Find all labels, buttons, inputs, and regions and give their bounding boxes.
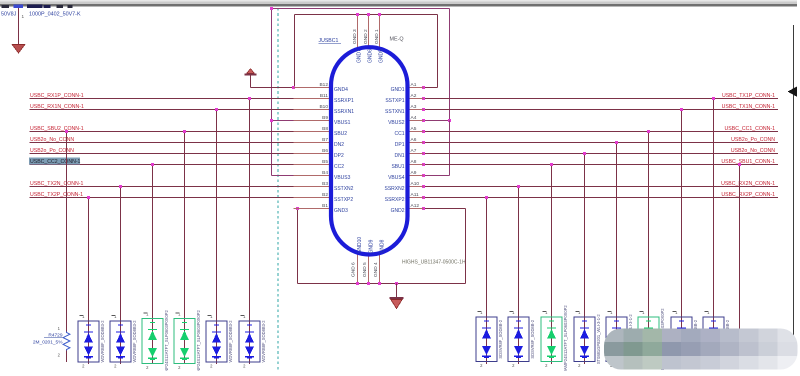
svg-text:B6: B6 (322, 148, 328, 154)
svg-text:DP1: DP1 (395, 142, 405, 148)
pin 2 D12 (642, 363, 645, 368)
package label D8 (530, 319, 535, 358)
svg-text:USBC_RX2N_CONN-1: USBC_RX2N_CONN-1 (721, 181, 775, 187)
pin 1 D1 (80, 314, 86, 319)
net label USB2o_No_CONN (731, 148, 775, 154)
pin designator A5 (411, 126, 417, 132)
svg-text:ST0881GP8201_WLI-3-1-2: ST0881GP8201_WLI-3-1-2 (596, 314, 601, 365)
svg-text:SSTXN1: SSTXN1 (385, 109, 405, 115)
svg-text:SSTXP2: SSTXP2 (334, 197, 353, 203)
svg-text:VBUS4: VBUS4 (388, 175, 405, 181)
svg-text:VBUS1: VBUS1 (334, 120, 351, 126)
pin designator A8 (411, 159, 417, 165)
svg-text:GND 1: GND 1 (374, 29, 380, 44)
svg-text:A12: A12 (411, 203, 420, 209)
svg-text:DN2: DN2 (334, 142, 344, 148)
ground symbol left of B12 (244, 69, 256, 88)
pin label GND 6 bottom (351, 262, 357, 277)
junction B1 (296, 207, 299, 210)
pin designator B2 (322, 192, 328, 198)
junction A4 (422, 119, 451, 122)
svg-text:GND 2: GND 2 (363, 29, 369, 44)
pin designator B12 (319, 82, 328, 88)
pin 1 R4729 (58, 326, 61, 331)
junction USBC_SBU2_CONN-1 (183, 130, 186, 133)
pin designator A1 (411, 82, 417, 88)
pin designator B8 (322, 126, 328, 132)
svg-text:USB2o_No_CONN: USB2o_No_CONN (30, 137, 74, 143)
wire drop USB2o_No_CONN to ESD (584, 154, 586, 365)
pin 1 D6 (241, 314, 247, 319)
net label USBC_TX1P_CONN-1 (722, 93, 775, 99)
wire net USBC_CC2_CONN-1 (30, 164, 332, 166)
net label USB2o_Po_CONN (731, 137, 775, 143)
pin 1 D13 (673, 310, 679, 315)
ESD diode package D11 (606, 317, 627, 362)
pin name DN1 (394, 153, 404, 159)
pin designator B10 (319, 104, 328, 110)
svg-text:USBC_TX1P_CONN-1: USBC_TX1P_CONN-1 (722, 93, 775, 99)
junctions bottom GND pins (356, 282, 398, 285)
net label USB2o_Po_CONN (30, 148, 74, 154)
svg-text:NP24S12ATFT_SLP0603P0X0P2: NP24S12ATFT_SLP0603P0X0P2 (164, 309, 169, 371)
pin name SSRXP1 (334, 98, 354, 104)
wire pin A4 VBUS2 (424, 120, 450, 122)
svg-text:HIGHS_UB11347-0500C-1H: HIGHS_UB11347-0500C-1H (402, 260, 466, 266)
ESD diode package D13 (671, 317, 692, 362)
pin 1 D5 (208, 314, 214, 319)
net label USBC_CC2_CONN-1 (29, 157, 81, 165)
package label D2 (132, 320, 137, 363)
pin designator B11 (320, 93, 329, 99)
wire net USBC_SBU1_CONN-1 (424, 164, 779, 166)
pin 1 D8 (510, 310, 516, 315)
svg-text:USB2o_Po_CONN: USB2o_Po_CONN (731, 137, 775, 143)
connector body JUSBC1 (oval) (331, 47, 408, 254)
pin 1 D4 (176, 312, 182, 317)
pin name CC1 (394, 131, 404, 137)
sheet border right edge (793, 25, 795, 338)
svg-text:USBC_RX1P_CONN-1: USBC_RX1P_CONN-1 (30, 93, 84, 99)
pin GND3 top (357, 15, 359, 49)
pin 2 D6 (243, 364, 246, 369)
pin 1 D2 (112, 314, 118, 319)
svg-text:B5: B5 (322, 159, 328, 165)
pin name GND7 (357, 49, 363, 63)
ESD diode package D14 (703, 317, 724, 362)
pin 1 label (22, 14, 25, 19)
package label D13 (693, 319, 698, 358)
pin name VBUS1 (334, 120, 351, 126)
svg-text:GND 4: GND 4 (373, 262, 379, 277)
wire drop USBC_TX1N_CONN-1 to ESD (681, 110, 683, 365)
wire net USB2o_No_CONN (30, 142, 332, 144)
pin name VBUS4 (388, 175, 405, 181)
pin label GND 5 bottom (362, 262, 368, 277)
svg-text:A4: A4 (411, 115, 417, 121)
svg-text:USBC_RX1N_CONN-1: USBC_RX1N_CONN-1 (30, 104, 84, 110)
svg-text:SDSVR8F_SOD8B-2: SDSVR8F_SOD8B-2 (498, 319, 503, 358)
junction A12 (422, 207, 425, 210)
pin 2 D7 (480, 363, 483, 368)
wire drop USBC_RX2P_CONN-1 to ESD (486, 198, 488, 365)
svg-text:DN1: DN1 (394, 153, 404, 159)
pin designator A9 (411, 170, 417, 176)
ESD diode package D10 (574, 317, 595, 362)
pin designator B4 (322, 170, 328, 176)
pin GND bottom 1 (357, 254, 359, 284)
svg-text:GND2: GND2 (391, 208, 405, 214)
junction USBC_SBU1_CONN-1 (550, 163, 553, 166)
svg-text:USBC_CC2_CONN-1: USBC_CC2_CONN-1 (30, 159, 81, 165)
pin designator B6 (322, 148, 328, 154)
net label USBC_SBU2_CONN-1 (30, 126, 84, 132)
wire pin A1 GND1 (424, 87, 438, 89)
pin 1 D10 (576, 310, 582, 315)
svg-text:GND5: GND5 (379, 49, 385, 63)
svg-text:CC2: CC2 (334, 164, 344, 170)
svg-text:GND8: GND8 (380, 239, 386, 253)
svg-text:WDVRB8F_SOD8B3-2: WDVRB8F_SOD8B3-2 (132, 320, 137, 363)
svg-text:B3: B3 (322, 181, 328, 187)
wire net USBC_RX2P_CONN-1 (424, 197, 779, 199)
net label USBC_TX2N_CONN-1 (30, 181, 83, 187)
svg-text:GND 5: GND 5 (362, 262, 368, 277)
pin label GND 1 top (374, 29, 380, 44)
svg-text:A1: A1 (411, 82, 417, 88)
pin name DP2 (334, 153, 344, 159)
value label 50V8J (1, 12, 17, 18)
junction pin A (422, 141, 425, 144)
svg-text:A3: A3 (411, 104, 417, 110)
svg-text:A2: A2 (411, 93, 417, 99)
svg-text:A10: A10 (411, 181, 420, 187)
net label USBC_RX2P_CONN-1 (721, 192, 775, 198)
junction pin A (422, 163, 425, 166)
svg-text:USBC_TX1N_CONN-1: USBC_TX1N_CONN-1 (722, 104, 775, 110)
svg-text:WDVRB8F_SOD8B3-2: WDVRB8F_SOD8B3-2 (100, 320, 105, 363)
pin 2 D2 (114, 364, 117, 369)
svg-text:GND 3: GND 3 (352, 29, 358, 44)
svg-text:B1: B1 (322, 203, 328, 209)
refdes R4729 (44, 333, 63, 339)
junction USB2o_Po_CONN (615, 141, 618, 144)
wire drop USBC_TX1P_CONN-1 to ESD (713, 99, 715, 365)
pin GND bottom 2 (368, 256, 370, 284)
pin designator A11 (411, 192, 420, 198)
ESD diode package D12 (638, 317, 659, 362)
pin label GND 4 bottom (373, 262, 379, 277)
pin GND bottom 3 (379, 254, 381, 284)
wire net USB2o_Po_CONN (424, 142, 779, 144)
wire net USBC_CC1_CONN-1 (424, 131, 779, 133)
svg-text:SBU1: SBU1 (391, 164, 404, 170)
net label USB2o_No_CONN (30, 137, 74, 143)
junction USBC_TX2N_CONN-1 (119, 185, 122, 188)
pin 2 D1 (82, 364, 85, 369)
junction USBC_TX1N_CONN-1 (680, 108, 683, 111)
svg-text:B8: B8 (322, 126, 328, 132)
pin name SSTXN1 (385, 109, 405, 115)
svg-text:SSRXP1: SSRXP1 (334, 98, 354, 104)
ESD diode package D7 (476, 317, 497, 362)
wire net USBC_TX1P_CONN-1 (424, 98, 779, 100)
svg-text:USBC_SBU2_CONN-1: USBC_SBU2_CONN-1 (30, 126, 84, 132)
pin 2 D8 (512, 363, 515, 368)
junction USBC_TX1P_CONN-1 (712, 97, 715, 100)
pin 2 D4 (178, 365, 181, 370)
junction USB2o_No_CONN (583, 152, 586, 155)
wire VBUS top rail (272, 9, 450, 176)
pin name SSTXP1 (385, 98, 404, 104)
blurred watermark mosaic (604, 329, 798, 370)
svg-text:USBC_SBU1_CONN-1: USBC_SBU1_CONN-1 (721, 159, 775, 165)
svg-text:USBC_CC1_CONN-1: USBC_CC1_CONN-1 (725, 126, 776, 132)
svg-text:1: 1 (22, 14, 25, 19)
pin name SSRXN1 (334, 109, 354, 115)
svg-text:DP2: DP2 (334, 153, 344, 159)
net label USBC_SBU1_CONN-1 (721, 159, 775, 165)
net label USBC_RX1N_CONN-1 (30, 104, 84, 110)
svg-text:A9: A9 (411, 170, 417, 176)
svg-text:ME-Q: ME-Q (390, 37, 404, 43)
package label D3 (164, 309, 169, 371)
svg-text:USB2o_Po_CONN: USB2o_Po_CONN (30, 148, 74, 154)
package label D4 (196, 309, 201, 371)
pin 1 D9 (543, 310, 549, 315)
ESD diode package D3 (142, 319, 163, 364)
pin name SSTXP2 (334, 197, 353, 203)
wire net USBC_RX1N_CONN-1 (30, 109, 332, 111)
pin label GND 3 top (352, 29, 358, 44)
pin designator B9 (322, 115, 328, 121)
pin name SSRXP2 (385, 197, 405, 203)
package label D7 (498, 319, 503, 358)
pin name DP1 (395, 142, 405, 148)
pin 2 D11 (610, 363, 613, 368)
svg-text:A5: A5 (411, 126, 417, 132)
pin designator A3 (411, 104, 417, 110)
pin 1 D3 (144, 312, 150, 317)
pin 2 D9 (545, 363, 548, 368)
svg-text:A6: A6 (411, 137, 417, 143)
junction USBC_RX1N_CONN-1 (215, 108, 218, 111)
mouse cursor arrow (788, 87, 798, 97)
wire pin B4 VBUS3 (272, 175, 295, 177)
svg-text:50V8J: 50V8J (1, 12, 17, 18)
pin 2 D14 (707, 363, 710, 368)
pin 1 D7 (478, 310, 484, 315)
pin name SSTXN2 (334, 186, 354, 192)
junction USBC_RX2N_CONN-1 (517, 185, 520, 188)
cut-off capacitor fragments C? top-left (2, 5, 73, 9)
junction B12 (292, 86, 295, 89)
pin name GND10 (357, 237, 363, 254)
svg-text:B10: B10 (319, 104, 328, 110)
svg-text:A8: A8 (411, 159, 417, 165)
package label D14 (725, 319, 730, 358)
ESD diode package D8 (508, 317, 529, 362)
junction USBC_CC2_CONN-1 (151, 163, 154, 166)
wire net USBC_TX1N_CONN-1 (424, 109, 779, 111)
wire pin B1 GND3 (298, 208, 332, 210)
svg-text:GND6: GND6 (368, 49, 374, 63)
wire net USBC_TX2P_CONN-1 (30, 197, 332, 199)
net label USBC_TX2P_CONN-1 (30, 192, 83, 198)
wire net USBC_TX2N_CONN-1 (30, 186, 332, 188)
ESD diode package D1 (78, 321, 99, 362)
junction pin A (422, 97, 425, 100)
svg-text:UAMP24S12ATFT_SLP0603P0X0P2: UAMP24S12ATFT_SLP0603P0X0P2 (563, 305, 568, 371)
junction pin A (422, 108, 425, 111)
svg-text:SSRXP2: SSRXP2 (385, 197, 405, 203)
svg-text:USB2o_No_CONN: USB2o_No_CONN (731, 148, 775, 154)
pin name GND9 (369, 239, 375, 253)
pin name DN2 (334, 142, 344, 148)
wire drop USBC_SBU1_CONN-1 to ESD (551, 165, 553, 365)
package label D6 (261, 320, 266, 363)
pin designator A7 (411, 148, 417, 154)
pin 2 R4729 (58, 353, 61, 358)
svg-text:GND10: GND10 (357, 237, 363, 254)
svg-text:VBUS2: VBUS2 (388, 120, 405, 126)
junctions top GND pins (356, 13, 381, 16)
pin name SSRXN2 (384, 186, 404, 192)
wire drop USBC_SBU2_CONN-1 to ESD (184, 132, 186, 365)
pin name GND6 (368, 49, 374, 63)
wire pin A9 VBUS4 (424, 121, 450, 176)
pin designator B3 (322, 181, 328, 187)
package label D10 (596, 314, 601, 365)
svg-text:B7: B7 (322, 137, 328, 143)
wire net USBC_SBU2_CONN-1 (30, 131, 332, 133)
pin designator A10 (411, 181, 420, 187)
svg-text:USBC_TX2N_CONN-1: USBC_TX2N_CONN-1 (30, 181, 83, 187)
junction A1 (422, 86, 425, 89)
ESD diode package D6 (239, 321, 260, 362)
svg-text:B11: B11 (320, 93, 329, 99)
pin 2 D13 (675, 363, 678, 368)
junction USBC_TX2P_CONN-1 (87, 196, 90, 199)
wire drop SBU1 to hidden resistor (739, 165, 741, 333)
svg-text:USBC_RX2P_CONN-1: USBC_RX2P_CONN-1 (721, 192, 775, 198)
svg-text:GND1: GND1 (391, 87, 405, 93)
pin name SBU2 (334, 131, 347, 137)
svg-text:SDSVR8F_SOD8B-2: SDSVR8F_SOD8B-2 (530, 319, 535, 358)
junction pin A (422, 185, 425, 188)
wire drop USBC_RX1P_CONN-1 to ESD (249, 99, 251, 365)
junction A9 (422, 174, 425, 177)
package label D9 (563, 305, 568, 373)
value label 1000P_0402_50V7-K (29, 12, 81, 18)
pin designator B1 (322, 203, 328, 209)
wire net USB2o_No_CONN (424, 153, 779, 155)
pin designator A2 (411, 93, 417, 99)
wire drop USBC_TX2P_CONN-1 to ESD (88, 198, 90, 365)
pin name CC2 (334, 164, 344, 170)
net label USBC_TX1N_CONN-1 (722, 104, 775, 110)
svg-text:VBUS3: VBUS3 (334, 175, 351, 181)
package label D1 (100, 320, 105, 363)
pin name VBUS2 (388, 120, 405, 126)
pin GND1 top (379, 15, 381, 49)
pin 2 D5 (210, 364, 213, 369)
label ME-Q (390, 37, 404, 43)
junction pin A (422, 130, 425, 133)
wire cap to ground (18, 8, 20, 45)
svg-text:B2: B2 (322, 192, 328, 198)
svg-text:SSRXN2: SSRXN2 (384, 186, 404, 192)
pin designator B7 (322, 137, 328, 143)
pin name GND4 (334, 87, 348, 93)
pin name GND1 (391, 87, 405, 93)
wire drop USBC_RX1N_CONN-1 to ESD (216, 110, 218, 365)
junction pin A (422, 196, 425, 199)
svg-text:GND 6: GND 6 (351, 262, 357, 277)
junction USBC_CC1_CONN-1 (647, 130, 650, 133)
pin label GND 2 top (363, 29, 369, 44)
package label D5 (228, 320, 233, 363)
svg-text:WDVRB8F_SOD8B3-2: WDVRB8F_SOD8B3-2 (261, 320, 266, 363)
pin name VBUS3 (334, 175, 351, 181)
svg-text:GND3: GND3 (334, 208, 348, 214)
svg-text:USBC_TX2P_CONN-1: USBC_TX2P_CONN-1 (30, 192, 83, 198)
ESD diode package D2 (110, 321, 131, 362)
ESD diode package D9 (541, 317, 562, 362)
sheet partition dashed line (277, 8, 279, 371)
junction B9 (270, 119, 273, 122)
junction USBC_RX2P_CONN-1 (485, 196, 488, 199)
net label USBC_CC1_CONN-1 (725, 126, 776, 132)
wire net USBC_RX1P_CONN-1 (30, 98, 332, 100)
wire GND top rail (295, 15, 438, 88)
junction VBUS left (270, 7, 273, 10)
package label D12 (660, 308, 665, 370)
pin stubs B side (294, 88, 334, 209)
junction pin A (422, 152, 425, 155)
junction SBU1 right (738, 163, 741, 166)
svg-text:GND4: GND4 (334, 87, 348, 93)
svg-text:A11: A11 (411, 192, 420, 198)
svg-text:2M_0201_5%: 2M_0201_5% (33, 340, 63, 346)
svg-text:CC1: CC1 (394, 131, 404, 137)
pin stubs A side (406, 88, 424, 209)
wire pin B12 GND4 (251, 87, 295, 89)
resistor R4729 (63, 332, 70, 363)
pin designator B5 (322, 159, 328, 165)
svg-text:B9: B9 (322, 115, 328, 121)
wire net USBC_RX2N_CONN-1 (424, 186, 779, 188)
pin 1 D11 (608, 310, 614, 315)
junction SBU2/R4729 (65, 130, 68, 133)
ground symbol bottom (390, 284, 404, 309)
svg-text:SSTXP1: SSTXP1 (385, 98, 404, 104)
pin name GND5 (379, 49, 385, 63)
ESD diode package D4 (174, 319, 195, 364)
pin 2 D3 (146, 365, 149, 370)
wire net USB2o_Po_CONN (30, 153, 332, 155)
package label D11 (628, 314, 633, 365)
pin 1 D14 (705, 310, 711, 315)
pin designator A4 (411, 115, 417, 121)
pin GND2 top (368, 15, 370, 47)
pin name GND3 (334, 208, 348, 214)
refdes JUSBC1 (319, 38, 342, 44)
wire drop USBC_TX2N_CONN-1 to ESD (120, 187, 122, 365)
wire drop USBC_CC2_CONN-1 to ESD (152, 165, 154, 365)
wire pin B9 VBUS1 (272, 120, 295, 122)
part number HIGHS_UB11347-0500C-1H (402, 260, 466, 266)
